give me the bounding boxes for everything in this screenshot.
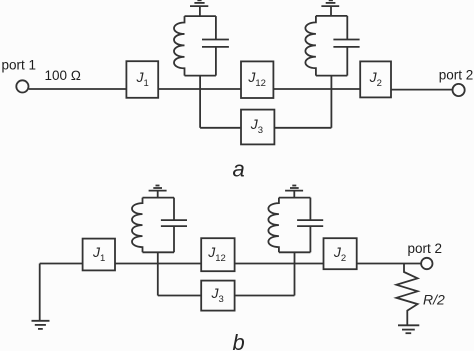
- inductor L1b: [132, 198, 143, 253]
- inverter J2 (figure b): [324, 238, 357, 269]
- wire resonator 2a stem to lower branch: [330, 76, 332, 128]
- ground (resonator 1a, pointing up): [190, 0, 208, 16]
- inductor L2b: [268, 198, 279, 253]
- wire port1 to J1: [29, 88, 127, 90]
- inductor L2a: [305, 16, 316, 76]
- wire resonator 1a stem to lower branch: [199, 76, 201, 128]
- resonator 2a loop wires: [316, 16, 347, 76]
- inverter J1 (figure b): [83, 239, 115, 271]
- capacitor C2a: [333, 16, 359, 76]
- inverter J3: [241, 110, 274, 145]
- ground (resonator 1b, pointing up): [149, 186, 167, 198]
- inverter J12: [241, 61, 273, 98]
- svg-text:J2: J2: [333, 244, 346, 264]
- svg-text:port 2: port 2: [439, 67, 474, 82]
- inverter J3 (figure b): [201, 281, 234, 311]
- svg-text:100 Ω: 100 Ω: [45, 68, 82, 83]
- capacitor C1a: [202, 16, 229, 76]
- svg-text:R/2: R/2: [423, 291, 445, 307]
- ground (left, figure b): [32, 264, 50, 329]
- inverter J12 (figure b): [201, 238, 234, 271]
- wire J12 to J2: [273, 88, 360, 90]
- wire resonator 2b stem to lower branch: [294, 252, 296, 295]
- port 1 terminal: [16, 80, 28, 92]
- svg-text:J12: J12: [207, 244, 226, 264]
- ground (below resistor): [398, 325, 419, 333]
- svg-text:J1: J1: [92, 244, 105, 264]
- wire J3 to lower branch right (figure b): [235, 295, 295, 297]
- port 2 terminal: [453, 84, 465, 96]
- wire resonator 1b stem to lower branch: [157, 252, 159, 295]
- wire J12 to J2 (figure b): [235, 263, 324, 265]
- svg-text:port 2: port 2: [408, 241, 443, 256]
- svg-text:b: b: [233, 330, 245, 351]
- ground (resonator 2a, pointing up): [321, 0, 339, 16]
- wire lower branch left to J3: [200, 127, 241, 129]
- wire J1 to J12: [158, 88, 241, 90]
- inverter J2: [360, 61, 391, 97]
- wire left stub to J1: [40, 263, 83, 265]
- svg-text:J12: J12: [247, 69, 266, 89]
- svg-text:J2: J2: [369, 69, 382, 89]
- wire J2 to port 2: [391, 89, 452, 91]
- resistor R/2: [396, 263, 417, 325]
- resonator 2b loop wires: [279, 198, 311, 253]
- capacitor C2b: [297, 198, 323, 253]
- svg-text:port 1: port 1: [2, 57, 37, 72]
- svg-text:J3: J3: [211, 285, 224, 305]
- ground (resonator 2b, pointing up): [285, 186, 303, 198]
- svg-text:J3: J3: [250, 116, 263, 136]
- svg-text:a: a: [233, 156, 245, 181]
- port 2 terminal (figure b): [421, 258, 432, 269]
- resonator 1a loop wires: [185, 16, 216, 76]
- inverter J1: [126, 61, 158, 98]
- resonator 1b loop wires: [143, 198, 175, 253]
- inductor L1a: [174, 16, 185, 76]
- wire J3 to lower branch right: [274, 127, 331, 129]
- wire J1 to J12 (figure b): [115, 263, 201, 265]
- wire J2 to port 2 (figure b): [357, 263, 422, 265]
- svg-text:J1: J1: [136, 69, 149, 89]
- wire lower branch left to J3 (figure b): [158, 295, 201, 297]
- capacitor C1b: [161, 198, 187, 253]
